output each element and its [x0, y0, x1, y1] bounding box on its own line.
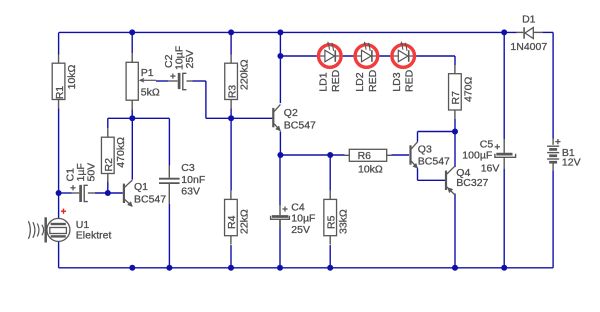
- svg-text:63V: 63V: [181, 185, 200, 197]
- svg-text:Q2: Q2: [284, 107, 298, 119]
- svg-text:R1: R1: [54, 86, 66, 100]
- svg-text:RED: RED: [404, 69, 416, 92]
- transistor Q3 BC547 (NPN): [411, 142, 418, 168]
- transistor Q4 BC327 (PNP): [446, 166, 455, 195]
- svg-text:R2: R2: [103, 158, 115, 172]
- wire R5 bottom to ground: [329, 245, 331, 268]
- wire R5 top to node D: [329, 155, 331, 191]
- wire Q4 collector vertical to node C: [454, 132, 456, 168]
- LED LD1 RED (circled): [317, 41, 343, 69]
- LED LD3 RED (circled): [390, 41, 416, 69]
- junction top rail at R3: [228, 29, 234, 35]
- svg-text:470kΩ: 470kΩ: [115, 137, 127, 168]
- potentiometer P1 wiper arrow: [142, 79, 156, 81]
- svg-text:LD2: LD2: [354, 72, 366, 91]
- svg-text:RED: RED: [367, 69, 379, 92]
- svg-text:33kΩ: 33kΩ: [338, 209, 350, 234]
- resistor R5 body: [329, 191, 331, 200]
- wire ground bottom rail: [59, 267, 553, 269]
- svg-text:16V: 16V: [481, 163, 500, 175]
- wire R3 top to rail: [230, 32, 232, 54]
- svg-text:1N4007: 1N4007: [510, 41, 547, 53]
- svg-text:10kΩ: 10kΩ: [358, 163, 383, 175]
- resistor R7 body: [454, 65, 456, 74]
- wire C3 bottom to ground: [168, 204, 170, 268]
- junction node D at R5: [327, 152, 333, 158]
- junction ground at Q4 emitter: [452, 265, 458, 271]
- resistor R3 body: [230, 54, 232, 63]
- wire C1 to R2/Q1 base node: [95, 192, 123, 194]
- wire node D horizontal to R6: [280, 154, 344, 156]
- wire Q4 emitter to ground: [454, 194, 456, 268]
- junction LED row at Q2 collector: [277, 53, 283, 59]
- diode D1 1N4007: [517, 27, 543, 38]
- wire node A down to C3 top: [168, 118, 170, 165]
- microphone U1 Elektret: [46, 217, 70, 242]
- resistor R1 body: [58, 54, 60, 63]
- wire node B horizontal to Q2 base: [206, 117, 273, 119]
- svg-text:R7: R7: [450, 91, 462, 105]
- transistor Q1 BC547 (NPN): [124, 180, 132, 206]
- svg-text:220kΩ: 220kΩ: [239, 59, 251, 90]
- junction ground at Q1 emitter: [129, 265, 135, 271]
- svg-text:10µF: 10µF: [291, 212, 315, 224]
- resistor R2 body: [107, 128, 109, 137]
- junction Q1 base / R2: [105, 190, 111, 196]
- wire C4 bottom to ground: [279, 219, 281, 267]
- svg-text:5kΩ: 5kΩ: [141, 87, 160, 99]
- wire Q2 emitter down to node D: [279, 131, 281, 155]
- wire Q2 collector to top rail: [279, 32, 281, 103]
- svg-text:Q3: Q3: [418, 144, 432, 156]
- microphone U1 plus polarity mark (red): [61, 209, 66, 214]
- wire left column top rail to R1: [58, 32, 60, 54]
- wire P1 bottom to node A: [131, 109, 133, 118]
- junction mic node at C1: [56, 190, 62, 196]
- svg-text:25V: 25V: [291, 224, 310, 236]
- junction top rail at C5: [501, 29, 507, 35]
- wire P1 top to rail: [131, 32, 133, 53]
- svg-text:BC327: BC327: [456, 177, 488, 189]
- wire node D down to C4: [279, 155, 281, 205]
- microphone U1 sound waves: [28, 221, 43, 239]
- svg-text:22kΩ: 22kΩ: [238, 209, 250, 234]
- wire V+ top rail left of D1: [59, 31, 517, 33]
- capacitor C4 10uF polarized (vertical): [271, 205, 290, 229]
- capacitor C2 10uF polarized (horizontal): [168, 73, 192, 90]
- svg-text:12V: 12V: [562, 156, 581, 168]
- svg-text:R5: R5: [326, 215, 338, 229]
- svg-text:R6: R6: [358, 150, 372, 162]
- wire node B down to R4: [230, 118, 232, 190]
- junction ground at C4: [277, 265, 283, 271]
- svg-text:BC547: BC547: [134, 194, 166, 206]
- wire R1 bottom to mic node: [58, 108, 60, 218]
- junction node A at P1: [129, 115, 135, 121]
- capacitor C5 100uF polarized (vertical): [495, 139, 516, 169]
- resistor R4 body: [230, 191, 232, 200]
- svg-text:25V: 25V: [184, 50, 196, 69]
- svg-text:LD3: LD3: [391, 72, 403, 91]
- svg-text:10nF: 10nF: [181, 174, 205, 186]
- svg-text:50V: 50V: [86, 163, 98, 182]
- svg-text:R4: R4: [226, 215, 238, 229]
- svg-text:P1: P1: [141, 67, 154, 79]
- wire V+ top rail right of D1 to battery: [542, 31, 553, 33]
- junction ground at C3: [166, 265, 172, 271]
- battery B1 12V: [547, 139, 560, 171]
- svg-text:10kΩ: 10kΩ: [66, 64, 78, 89]
- potentiometer P1 body: [131, 53, 133, 62]
- junction node D at Q2 emitter: [277, 152, 283, 158]
- wire C2 right to corner: [193, 80, 206, 82]
- wire node C horizontal R7/Q3/Q4 collectors: [418, 131, 456, 133]
- wire R4 bottom to ground: [230, 245, 232, 268]
- wire LED row: [280, 55, 455, 57]
- wire battery B1 column: [552, 32, 554, 138]
- wire node A down to Q1 collector: [131, 118, 133, 179]
- wire LED row corner down to R7: [454, 56, 456, 65]
- capacitor C3 10nF (vertical): [159, 166, 180, 204]
- svg-text:C3: C3: [181, 162, 195, 174]
- svg-text:Elektret: Elektret: [76, 230, 112, 242]
- junction ground at R5: [327, 265, 333, 271]
- wire P1 wiper to C2: [156, 80, 168, 82]
- junction node B at R3: [228, 115, 234, 121]
- wire R6 right to Q3 base: [392, 154, 410, 156]
- svg-text:RED: RED: [330, 69, 342, 92]
- svg-text:BC547: BC547: [284, 120, 316, 132]
- svg-text:LD1: LD1: [318, 72, 330, 91]
- junction top rail at P1: [129, 29, 135, 35]
- wire mic node to C1: [59, 192, 72, 194]
- junction ground at C5: [501, 265, 507, 271]
- wire C5 column: [503, 32, 505, 139]
- junction node C below R7: [452, 129, 458, 135]
- wire mic bottom to ground rail: [58, 242, 60, 268]
- svg-text:BC547: BC547: [418, 155, 450, 167]
- wire node A horizontal (R2/P1/C3/Q1 collector): [108, 117, 170, 119]
- wire R7 bottom to node C: [454, 119, 456, 132]
- wire R3 bottom to node B: [230, 108, 232, 118]
- transistor Q2 BC547 (NPN): [273, 104, 280, 130]
- wire R2 bottom stub to base node: [107, 180, 109, 193]
- svg-text:470Ω: 470Ω: [462, 76, 474, 102]
- junction top rail at Q2 collector: [277, 29, 283, 35]
- svg-text:100µF: 100µF: [462, 149, 492, 161]
- wire Q3 collector vertical: [417, 132, 419, 142]
- junction ground at R4: [228, 265, 234, 271]
- svg-text:R3: R3: [226, 85, 238, 99]
- wire corner down: [205, 81, 207, 118]
- svg-text:D1: D1: [522, 13, 536, 25]
- capacitor C1 1uF polarized (horizontal): [70, 185, 95, 202]
- resistor R6 body (horizontal): [345, 154, 350, 156]
- wire Q3 emitter to Q4 base: [417, 168, 419, 180]
- LED LD2 RED (circled): [353, 41, 379, 69]
- svg-text:Q1: Q1: [134, 181, 148, 193]
